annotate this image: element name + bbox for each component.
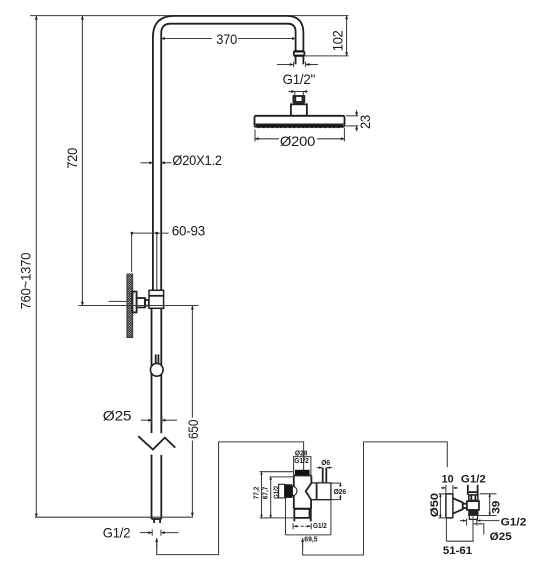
svg-text:G1/2: G1/2 xyxy=(501,517,527,529)
svg-text:Ø200: Ø200 xyxy=(280,133,316,149)
svg-text:Ø25: Ø25 xyxy=(103,407,132,423)
svg-text:Ø20X1.2: Ø20X1.2 xyxy=(172,152,222,168)
svg-text:51-61: 51-61 xyxy=(443,545,473,557)
svg-text:370: 370 xyxy=(216,31,237,47)
svg-text:10: 10 xyxy=(442,474,454,486)
svg-text:77,2: 77,2 xyxy=(251,487,260,500)
svg-text:69,5: 69,5 xyxy=(304,535,317,544)
svg-text:Ø6: Ø6 xyxy=(321,458,330,467)
svg-text:39: 39 xyxy=(490,501,502,514)
svg-text:760~1370: 760~1370 xyxy=(17,252,33,309)
svg-text:Ø50: Ø50 xyxy=(429,493,441,517)
svg-text:720: 720 xyxy=(64,148,80,169)
svg-text:67,7: 67,7 xyxy=(261,487,270,500)
svg-text:G1/2: G1/2 xyxy=(461,474,486,486)
svg-text:650: 650 xyxy=(185,419,201,439)
svg-text:G1/2: G1/2 xyxy=(103,525,131,541)
svg-text:G1/2: G1/2 xyxy=(271,486,280,499)
svg-text:60-93: 60-93 xyxy=(172,223,206,239)
svg-text:G1/2: G1/2 xyxy=(313,521,327,530)
svg-text:G1/2": G1/2" xyxy=(283,71,316,87)
svg-text:Ø26: Ø26 xyxy=(334,487,346,496)
svg-text:23: 23 xyxy=(357,115,373,129)
svg-text:Ø25: Ø25 xyxy=(490,531,513,543)
svg-text:102: 102 xyxy=(329,30,345,51)
svg-text:G1/2: G1/2 xyxy=(294,456,309,465)
